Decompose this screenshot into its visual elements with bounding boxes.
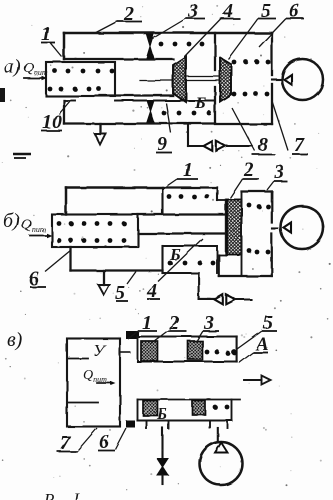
tank arrow a <box>95 124 106 145</box>
figure v control box <box>67 339 130 427</box>
svg-text:3: 3 <box>273 161 284 183</box>
right chamber walls <box>215 33 272 124</box>
inlet dots b <box>57 221 127 243</box>
upper duct v <box>138 337 237 362</box>
hydromotor circle b <box>281 206 324 249</box>
svg-text:в): в) <box>7 329 23 351</box>
drain mouth v <box>147 421 169 459</box>
svg-text:7: 7 <box>294 134 305 156</box>
lower duct v <box>138 400 241 421</box>
poppet right <box>220 58 231 102</box>
lower channel <box>115 100 215 102</box>
inlet chamber 6 <box>52 215 138 248</box>
drain pipe a <box>188 124 204 147</box>
supply arrow a <box>24 76 47 80</box>
svg-text:Р: Р <box>43 490 54 500</box>
right chamber dots <box>232 60 271 97</box>
stray scan marks <box>0 88 31 158</box>
pump circle v <box>200 442 243 485</box>
seat top <box>147 35 154 59</box>
poppet left <box>173 57 186 103</box>
chamber B dots <box>168 261 216 266</box>
svg-text:І: І <box>72 489 80 500</box>
seal bottom v <box>126 421 135 428</box>
drain pipe b <box>199 273 215 299</box>
chamber B b <box>163 246 218 273</box>
motor arrow a <box>284 75 292 85</box>
piston guides b <box>217 200 226 277</box>
upper duct dots <box>205 350 238 356</box>
svg-text:а): а) <box>4 56 21 78</box>
pump mouth v <box>210 421 228 443</box>
pilot chamber dots b <box>167 194 210 199</box>
seat bottom <box>147 101 154 123</box>
supply arrow v <box>97 381 116 385</box>
figure a body outline <box>64 33 272 124</box>
svg-text:Б: Б <box>156 406 167 423</box>
lower channel dots <box>162 111 212 116</box>
inlet chamber 10 <box>46 62 115 96</box>
svg-text:Qпит: Qпит <box>83 368 107 384</box>
check valve v <box>157 459 168 485</box>
packing 3v <box>188 341 203 360</box>
piston 2 <box>227 200 242 255</box>
output arrow v <box>244 376 271 385</box>
svg-text:2: 2 <box>243 159 254 181</box>
svg-text:1: 1 <box>183 159 193 181</box>
outlet chamber 3 <box>219 192 272 277</box>
svg-text:Б: Б <box>194 93 206 112</box>
throttle valve a <box>204 141 253 151</box>
svg-text:б): б) <box>3 210 20 232</box>
svg-text:8: 8 <box>258 134 268 156</box>
lower duct dots <box>213 405 230 410</box>
leaders fig v <box>138 330 157 332</box>
port stub b <box>272 227 278 229</box>
motor arrow b <box>284 223 292 233</box>
hydromotor circle a <box>282 59 323 100</box>
leaders fig b <box>177 178 198 180</box>
throttle valve b <box>215 295 252 305</box>
labels fig b <box>3 159 284 304</box>
packing 2v lower <box>143 401 158 416</box>
port stub to motor <box>272 78 282 80</box>
inlet dots <box>48 69 115 92</box>
outlet dots b <box>247 203 271 255</box>
leaders fig a <box>41 42 55 44</box>
seal top v <box>126 331 139 339</box>
top channel dots <box>159 42 205 47</box>
svg-text:Qпит: Qпит <box>23 60 48 77</box>
labels fig v <box>7 312 273 500</box>
svg-text:Qпит: Qпит <box>21 217 46 234</box>
packing 2v <box>141 341 158 361</box>
labels fig a <box>4 0 305 156</box>
pilot chamber box b <box>163 188 218 215</box>
supply arrow b <box>30 233 52 237</box>
figure b body outline <box>66 188 226 271</box>
packing 3v lower <box>192 401 205 415</box>
stem <box>140 77 220 81</box>
tank arrow b <box>98 271 109 295</box>
pump arrow v <box>215 443 228 453</box>
svg-text:У: У <box>93 341 107 360</box>
